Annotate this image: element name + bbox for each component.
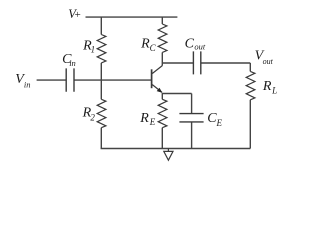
resistor RL [246, 71, 255, 99]
label R2 [82, 106, 96, 123]
capacitor Cin [66, 68, 74, 91]
label Cin [62, 52, 76, 68]
wire Vin lead [37, 79, 67, 81]
transistor Q1 [152, 66, 163, 93]
wire RL bottom [249, 100, 251, 149]
svg-text:R: R [140, 37, 150, 52]
wire CE top stub [191, 94, 193, 114]
svg-text:R: R [262, 79, 272, 94]
resistor RC [158, 24, 167, 52]
capacitor CE [179, 114, 203, 122]
svg-text:2: 2 [90, 112, 95, 122]
capacitor Cout [193, 51, 200, 74]
svg-text:C: C [150, 43, 157, 53]
svg-text:L: L [271, 85, 277, 95]
wire RC top stub [161, 17, 163, 24]
label CE [207, 111, 222, 128]
wire Cout to Vout node [201, 62, 251, 64]
label Cout [185, 36, 206, 51]
wire emitter node horizontal [162, 93, 191, 95]
wire R2 bottom [100, 128, 102, 149]
wire bottom ground rail [101, 148, 251, 150]
wire CE bottom stub [191, 122, 193, 149]
wire emitter node to RE [161, 93, 163, 99]
svg-text:1: 1 [91, 45, 96, 55]
svg-text:E: E [149, 117, 156, 127]
wire RE bottom [161, 128, 163, 149]
svg-text:C: C [185, 36, 195, 51]
wire RC bottom to collector [161, 52, 163, 65]
label R1 [82, 38, 95, 54]
resistor R2 [97, 99, 106, 127]
resistor RE [158, 99, 167, 127]
ground [164, 149, 173, 161]
svg-text:in: in [69, 58, 76, 68]
resistor R1 [97, 35, 106, 63]
label RL [262, 79, 277, 95]
label Vout [255, 49, 274, 66]
label RE [139, 111, 156, 127]
wire Cin to base [74, 79, 151, 81]
wire R1 top stub [100, 17, 102, 34]
label V+ [68, 7, 81, 21]
label RC [140, 37, 157, 53]
wire R1 bottom to base node to R2 top [100, 63, 102, 99]
svg-text:out: out [194, 42, 206, 52]
svg-text:out: out [263, 57, 274, 66]
svg-text:E: E [216, 118, 223, 128]
wire Vout node down to RL [249, 63, 251, 71]
wire top V+ rail [86, 16, 178, 18]
label Vin [15, 72, 30, 90]
svg-text:R: R [139, 111, 149, 126]
svg-text:in: in [24, 80, 31, 90]
wire collector to Cout [162, 62, 193, 64]
svg-text:+: + [74, 9, 81, 21]
